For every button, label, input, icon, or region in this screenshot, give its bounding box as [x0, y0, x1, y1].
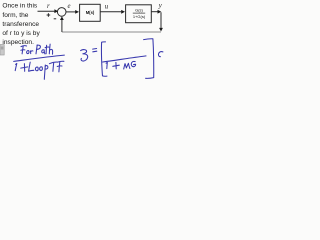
svg-text:r: r: [47, 3, 50, 10]
svg-text:G(s): G(s): [135, 8, 143, 13]
svg-text:inspection.: inspection.: [2, 39, 34, 46]
svg-text:e: e: [68, 3, 71, 10]
svg-text:u: u: [105, 4, 109, 11]
svg-text:form, the: form, the: [2, 12, 28, 19]
svg-text:of r to y is by: of r to y is by: [2, 30, 40, 37]
svg-text:M(s): M(s): [86, 10, 95, 15]
svg-text:transference: transference: [2, 21, 39, 28]
svg-text:1+G(s): 1+G(s): [133, 14, 146, 19]
svg-text:Once in this: Once in this: [2, 3, 38, 10]
